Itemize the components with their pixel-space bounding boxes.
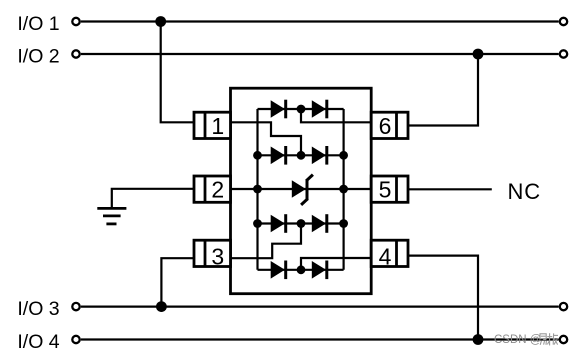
wire I/O 1 rail — [81, 20, 559, 22]
node zener right — [339, 185, 348, 194]
node row5 mid — [297, 265, 306, 274]
wire zener row — [231, 188, 372, 190]
diode D1b row1 right — [312, 100, 327, 119]
diode D4b row4 right — [312, 214, 327, 233]
junction I/O1 x160 — [155, 16, 166, 27]
svg-text:NC: NC — [508, 179, 541, 204]
pin 4 box — [371, 240, 408, 266]
node row4 left — [253, 219, 262, 228]
wire diode row 4 — [258, 222, 344, 224]
svg-text:I/O 1: I/O 1 — [17, 13, 59, 35]
wire row 5 mid to pin 4 — [301, 258, 371, 270]
wire diode row 1 — [258, 108, 344, 110]
svg-text:6: 6 — [379, 113, 392, 139]
terminal I/O 3 (open circle) — [72, 303, 79, 310]
svg-text:I/O 3: I/O 3 — [17, 298, 59, 320]
node row2 mid — [297, 151, 306, 160]
watermark — [494, 333, 558, 346]
terminal I/O 1 (open circle) — [72, 18, 79, 25]
wire diode row 5 — [258, 269, 344, 271]
diode D5a row5 left — [271, 261, 286, 280]
junction I/O2 x478 — [473, 49, 484, 60]
wire I/O 3 rail — [81, 306, 559, 308]
wire pin 3 step to row 4 — [231, 224, 302, 259]
ground — [97, 208, 126, 224]
pin 2 box — [194, 176, 231, 202]
terminal right of I/O 2 — [560, 50, 567, 57]
terminal right of I/O 3 — [560, 303, 567, 310]
wire I/O 1 to pin 1 — [161, 22, 194, 123]
node row4 mid — [297, 219, 306, 228]
pin 1 box — [194, 112, 231, 138]
terminal right of I/O 1 — [560, 18, 567, 25]
wire pin 1 step to row 2 — [231, 122, 302, 155]
zener diode Z1 — [292, 175, 313, 205]
diode D1a row1 left — [271, 100, 286, 119]
wire I/O 2 rail — [81, 53, 559, 55]
wire diode row 2 — [258, 154, 344, 156]
svg-text:4: 4 — [379, 243, 392, 269]
svg-text:I/O 4: I/O 4 — [17, 331, 59, 353]
wire row 1 mid to pin 6 — [301, 109, 371, 122]
wire I/O 3 to pin 3 — [161, 258, 194, 306]
node row1 mid — [297, 105, 306, 114]
svg-text:CSDN @: CSDN @ — [494, 334, 541, 346]
terminal I/O 2 (open circle) — [72, 50, 79, 57]
wire I/O 4 rail — [81, 338, 559, 340]
node zener left — [253, 185, 262, 194]
wire left rail — [256, 109, 258, 270]
wire pin 4 to I/O 4 — [408, 256, 478, 340]
pin 6 box — [371, 112, 408, 138]
node row2 left — [253, 151, 262, 160]
junction I/O3 x161 — [156, 301, 167, 312]
diode D2b row2 right — [312, 146, 327, 165]
diode D2a row2 left — [271, 146, 286, 165]
node row4 right — [339, 219, 348, 228]
svg-text:I/O 2: I/O 2 — [17, 46, 59, 68]
wire right rail — [343, 109, 345, 270]
IC body U1 — [231, 88, 372, 294]
diode D4a row4 left — [271, 214, 286, 233]
svg-text:3: 3 — [211, 243, 224, 269]
wire ground to pin 2 — [112, 189, 194, 209]
svg-text:1: 1 — [211, 113, 224, 139]
diode D5b row5 right — [312, 261, 327, 280]
junction I/O4 x478 — [473, 334, 484, 345]
pin 5 box — [371, 176, 408, 202]
wire pin 5 to NC — [408, 188, 492, 190]
node row2 right — [339, 151, 348, 160]
terminal right of I/O 4 — [560, 336, 567, 343]
terminal I/O 4 (open circle) — [72, 336, 79, 343]
svg-text:5: 5 — [379, 176, 392, 202]
wire I/O 2 to pin 6 — [408, 54, 478, 126]
pin 3 box — [194, 240, 231, 266]
svg-text:2: 2 — [211, 176, 224, 202]
